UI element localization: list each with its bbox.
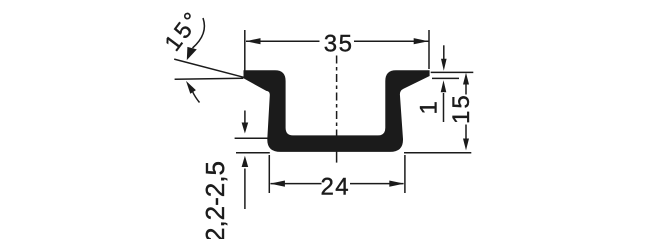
svg-text:24: 24 xyxy=(320,173,350,200)
svg-text:1: 1 xyxy=(416,101,443,114)
svg-text:15: 15 xyxy=(448,93,475,124)
svg-text:2,2-2,5: 2,2-2,5 xyxy=(200,161,230,239)
svg-text:35: 35 xyxy=(324,31,354,58)
